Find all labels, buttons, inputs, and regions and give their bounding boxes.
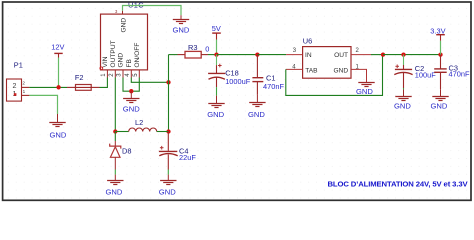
svg-text:OUT: OUT: [334, 52, 348, 59]
svg-text:IN: IN: [305, 52, 312, 59]
wire U1C pin4 FB to node B: [131, 78, 168, 83]
wire C1 node to U6 IN: [257, 54, 286, 56]
wire 12V to junction: [58, 58, 60, 88]
wire 5V rail to C1 node: [217, 54, 258, 56]
junction GND under U1C: [129, 89, 133, 93]
svg-text:1: 1: [23, 89, 26, 94]
U1C anchor mark: [100, 67, 103, 70]
wire 5V to rail: [216, 40, 218, 55]
wire TAB loop to OUT node: [286, 55, 383, 96]
svg-text:GND: GND: [431, 102, 448, 111]
svg-text:U6: U6: [303, 36, 312, 45]
svg-text:GND: GND: [50, 131, 67, 140]
junction at fuse input: [56, 85, 60, 89]
ground under C18: [208, 104, 224, 108]
svg-text:VIN: VIN: [102, 56, 109, 67]
regulator U1C: [101, 14, 148, 70]
C18 plus sign: [218, 65, 222, 67]
wire OUT to junction: [371, 54, 383, 56]
C4 plus sign: [160, 147, 164, 149]
capacitor C18: [216, 55, 218, 66]
wire C4 to ground: [167, 170, 169, 175]
svg-text:GND: GND: [394, 102, 411, 111]
ground under C1: [249, 103, 265, 107]
svg-text:100uF: 100uF: [415, 71, 436, 80]
svg-text:ON/OFF: ON/OFF: [134, 43, 141, 68]
svg-text:22uF: 22uF: [179, 153, 196, 162]
D8 triangle: [110, 147, 120, 158]
capacitor C4: [167, 132, 169, 151]
D8 cathode bar: [110, 144, 121, 149]
svg-text:GND: GND: [120, 18, 127, 33]
U6 pin 1 GND: [351, 69, 367, 82]
junction C2 node: [401, 52, 405, 56]
svg-text:1000uF: 1000uF: [225, 77, 251, 86]
junction node B: [166, 80, 170, 84]
wire P1 pin2 to fuse F2: [29, 86, 67, 88]
wire C18 to ground: [216, 87, 218, 96]
svg-text:P1: P1: [14, 60, 23, 69]
svg-text:R3: R3: [188, 43, 197, 52]
C2 plus sign: [395, 65, 399, 67]
svg-text:GND: GND: [159, 188, 176, 197]
diode D8: [114, 132, 116, 142]
svg-text:GND: GND: [248, 110, 265, 119]
ground at U1C top: [173, 20, 189, 24]
U1C pin names: [102, 40, 141, 67]
svg-text:FB: FB: [126, 58, 133, 67]
wire node B vertical: [168, 55, 170, 132]
regulator U6: [303, 47, 351, 79]
svg-text:0: 0: [205, 45, 209, 54]
svg-text:GND: GND: [118, 53, 125, 68]
capacitor C3: [440, 55, 442, 69]
wire P1 pin1 to GND: [29, 95, 57, 114]
connector P1: [7, 79, 30, 101]
svg-text:GND: GND: [123, 105, 140, 114]
U1C pin numbers 1-5: [101, 73, 139, 77]
ground under U1C: [123, 99, 139, 103]
U1C pins 1-5 stubs: [107, 70, 139, 78]
wire U1C pin3 to GND junction: [123, 78, 131, 92]
junction OUT node: [381, 52, 385, 56]
svg-text:GND: GND: [207, 110, 224, 119]
ground at U6 pin1: [358, 83, 374, 87]
svg-text:470nF: 470nF: [449, 69, 470, 78]
svg-text:GND: GND: [334, 67, 349, 74]
svg-text:GND: GND: [356, 87, 373, 96]
svg-text:GND: GND: [173, 26, 190, 35]
wire 3.3V rail: [383, 54, 441, 56]
wire C2 to ground: [403, 88, 405, 89]
ground under C2: [395, 97, 411, 101]
svg-text:2: 2: [13, 83, 17, 90]
svg-text:TAB: TAB: [305, 67, 318, 74]
capacitor C1: [256, 55, 258, 78]
svg-text:2: 2: [22, 80, 25, 85]
svg-text:L2: L2: [135, 118, 143, 127]
svg-text:12V: 12V: [51, 42, 64, 51]
wire U1C top pin to ground: [123, 6, 182, 16]
svg-text:GND: GND: [106, 188, 123, 197]
ground under C4: [160, 181, 176, 185]
ground under P1: [49, 123, 65, 127]
svg-text:BLOC D’ALIMENTATION 24V, 5V et: BLOC D’ALIMENTATION 24V, 5V et 3.3V: [327, 180, 468, 189]
wire D8 to ground: [114, 170, 116, 175]
U1C top pin 3 GND: [122, 11, 124, 14]
svg-text:OUTPUT: OUTPUT: [110, 40, 117, 67]
junction C1 node: [255, 52, 259, 56]
wire 3.3V to rail: [440, 41, 442, 55]
wire F2 to U1C pin1: [100, 78, 108, 88]
svg-text:470nF: 470nF: [263, 82, 284, 91]
ground under D8: [107, 181, 123, 185]
U6 pin 2 OUT: [351, 54, 371, 56]
U6 pin 3 IN: [286, 54, 303, 56]
svg-text:5V: 5V: [212, 24, 221, 33]
U6 pin 4 TAB: [286, 68, 303, 70]
junction node C output node: [166, 129, 170, 133]
wire U1C pin5 to GND junction: [131, 78, 139, 92]
svg-text:F2: F2: [75, 73, 84, 82]
wire R3 to 5V node: [208, 54, 217, 56]
capacitor C2: [403, 55, 405, 65]
junction node A switch node: [113, 129, 117, 133]
wire node B to R3: [169, 54, 178, 56]
svg-text:D8: D8: [122, 147, 131, 156]
wire U1C pin2 OUTPUT down to node A: [114, 78, 116, 132]
ground under C3: [432, 97, 448, 101]
junction 5V node: [214, 52, 218, 56]
junction C3 node: [438, 52, 442, 56]
